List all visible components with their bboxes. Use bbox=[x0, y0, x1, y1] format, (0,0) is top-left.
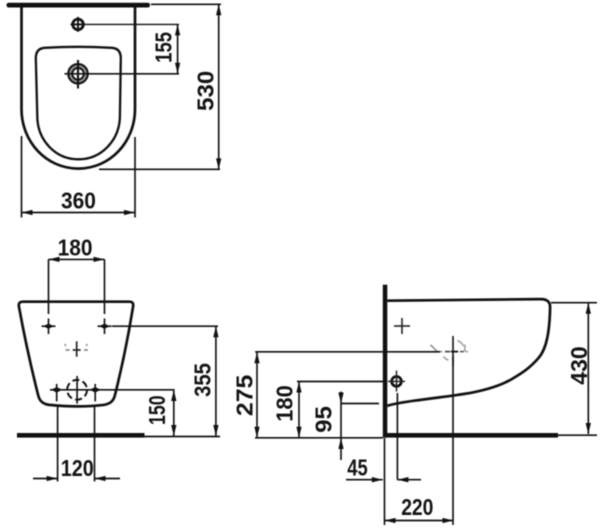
wall line (top view) bbox=[7, 3, 151, 8]
left bottom fixing hole (front view) bbox=[51, 384, 62, 402]
mounting hole cross (side view) bbox=[394, 318, 410, 334]
svg-text:220: 220 bbox=[401, 496, 433, 521]
left mounting hole (front view) bbox=[42, 319, 56, 335]
svg-text:120: 120 bbox=[61, 456, 94, 482]
leader from drain hole to 155 dimension bbox=[65, 73, 180, 75]
drain hole hidden circle (front view) bbox=[67, 376, 87, 404]
extension line ceramic bottom at wall (side view) bbox=[341, 403, 380, 405]
faucet centre extension line (side view) bbox=[255, 351, 440, 353]
body outline (front view) bbox=[19, 302, 133, 407]
water inlet (side view) bbox=[388, 371, 405, 392]
centre line through bottom holes (front view) bbox=[50, 389, 175, 391]
floor extension line (front view) bbox=[145, 436, 221, 438]
svg-text:180: 180 bbox=[272, 385, 298, 421]
svg-text:150: 150 bbox=[145, 395, 171, 425]
dimension 180 (front view) bbox=[49, 234, 105, 314]
dimension 355 (front view) bbox=[112, 326, 219, 436]
dimension 360 (top view) bbox=[22, 136, 136, 218]
leader from faucet hole to 155 dimension bbox=[86, 23, 179, 25]
dimension 430 (side view) bbox=[551, 303, 597, 434]
extension from faucet down to 220 (side view) bbox=[452, 356, 454, 525]
dimension 530 (top view) bbox=[99, 4, 221, 169]
svg-text:355: 355 bbox=[189, 363, 216, 397]
extension from inlet down to 45 (side view) bbox=[396, 393, 398, 480]
svg-text:360: 360 bbox=[61, 188, 96, 214]
drain hole (top view) bbox=[68, 60, 88, 89]
outer rim of bidet (top view) bbox=[22, 7, 136, 168]
svg-text:530: 530 bbox=[193, 71, 218, 111]
dimension 220 (side view) bbox=[385, 496, 454, 523]
svg-text:155: 155 bbox=[152, 32, 177, 63]
hidden faucet hole (side view) bbox=[431, 336, 469, 366]
dimension 45 (side view) bbox=[346, 456, 421, 483]
right bottom fixing hole (front view) bbox=[90, 384, 101, 402]
dimension 155 (top view) bbox=[152, 24, 181, 73]
svg-text:430: 430 bbox=[566, 346, 592, 384]
wall line (side view) bbox=[383, 285, 388, 438]
dimension 180 (side view) bbox=[272, 382, 383, 438]
faucet hole (top view) bbox=[71, 17, 86, 32]
dimension 275 (side view) bbox=[232, 352, 259, 438]
bidet profile (side view) bbox=[387, 299, 550, 406]
right mounting hole (front view) bbox=[98, 319, 112, 335]
dimension 150 (front view) bbox=[145, 390, 177, 436]
floor extension line right (side view) bbox=[558, 434, 597, 436]
floor extension line left (side view) bbox=[255, 437, 383, 439]
wall extension below floor (side view) bbox=[384, 438, 386, 525]
hidden faucet hole centre (front view) bbox=[65, 341, 88, 356]
floor line (front view) bbox=[17, 433, 145, 438]
floor line (side view) bbox=[383, 433, 558, 438]
svg-text:180: 180 bbox=[58, 234, 93, 260]
svg-text:275: 275 bbox=[232, 375, 258, 416]
dimension 95 (side view) bbox=[311, 392, 344, 461]
svg-text:45: 45 bbox=[347, 456, 367, 481]
inner bowl outline (top view) bbox=[36, 47, 121, 160]
svg-text:95: 95 bbox=[311, 406, 336, 433]
dimension 120 (front view) bbox=[33, 407, 120, 482]
